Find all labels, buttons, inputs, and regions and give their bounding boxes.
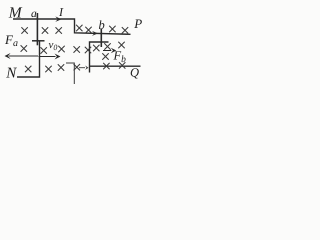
left stub rail bbox=[32, 40, 45, 42]
velocity arrow v0 pointing right from bar a bbox=[39, 56, 56, 58]
displacement arrow bbox=[79, 67, 85, 69]
svg-text:P: P bbox=[133, 16, 142, 31]
background bbox=[0, 0, 147, 84]
svg-text:b: b bbox=[99, 18, 105, 32]
svg-text:M: M bbox=[8, 4, 23, 21]
svg-text:Q: Q bbox=[130, 65, 139, 79]
force arrow Fa pointing left from bar a bbox=[9, 55, 38, 57]
rail Q bbox=[90, 65, 141, 67]
bar b bbox=[100, 29, 102, 48]
svg-text:a: a bbox=[31, 8, 37, 20]
rail M to P with step down at x74.5 bbox=[13, 19, 131, 34]
current arrow on rail P bbox=[92, 31, 98, 36]
current arrow I on rail M bbox=[55, 16, 61, 22]
force arrow Fb pointing right from bar b bbox=[103, 50, 111, 52]
magnetic field crosses left region bbox=[21, 27, 27, 33]
magnetic field crosses right region bbox=[76, 25, 82, 31]
bar a bbox=[36, 13, 38, 45]
right stub rail with step down at x89.5 crossing rail Q bbox=[90, 42, 109, 73]
reference line marker bbox=[66, 63, 74, 84]
rail N with step up at x39.5 to left stub level bbox=[17, 41, 40, 77]
svg-text:N: N bbox=[5, 66, 17, 82]
